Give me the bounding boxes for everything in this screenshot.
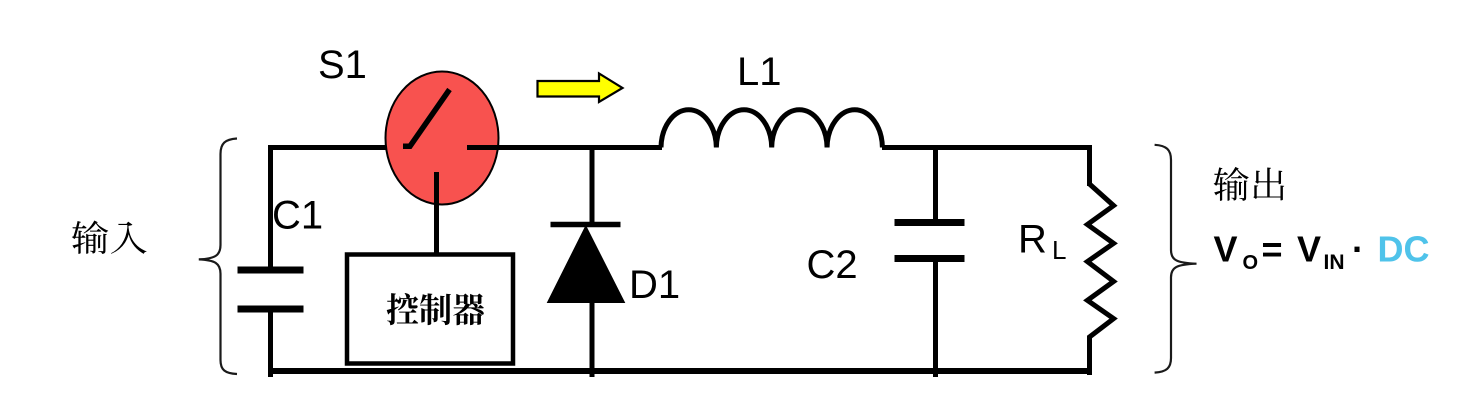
svg-text:·: ·: [1352, 229, 1364, 270]
wire: C2 bottom lead: [933, 262, 938, 377]
wire: top rail left (C1 top corner to switch left contact): [271, 148, 409, 269]
svg-text:S1: S1: [318, 43, 367, 87]
output formula VO = VIN * DC: [1214, 229, 1430, 275]
wire: switch right contact to inductor: [467, 145, 662, 150]
current-flow arrow (yellow): [538, 74, 623, 103]
svg-text:C2: C2: [807, 243, 858, 287]
input brace {: [199, 139, 237, 375]
svg-text:C1: C1: [272, 194, 323, 238]
svg-text:DC: DC: [1378, 229, 1430, 270]
inductor L1: [661, 110, 882, 148]
capacitor C2: [895, 223, 965, 259]
wire: C1 bottom lead: [268, 312, 273, 377]
output label 输出: [1214, 167, 1285, 201]
svg-text:D1: D1: [629, 263, 680, 307]
svg-text:O: O: [1243, 252, 1259, 274]
svg-text:IN: IN: [1324, 251, 1345, 274]
diode D1 cathode bar: [551, 222, 621, 228]
controller label 控制器: [387, 293, 484, 325]
resistor RL zigzag: [1087, 184, 1113, 375]
svg-text:L: L: [1052, 235, 1066, 265]
wire: switch control stem to controller: [434, 172, 439, 255]
wire: bottom rail: [268, 368, 1090, 374]
controller box: [347, 255, 513, 364]
switch S1 lever: [403, 90, 450, 147]
wire: top rail right (inductor to load corner): [882, 148, 1090, 187]
capacitor C1: [238, 270, 304, 309]
wire: diode top lead / junction at switch node: [590, 148, 595, 223]
svg-text:L1: L1: [737, 50, 782, 94]
diode D1 triangle: [548, 226, 625, 303]
input label 输入: [72, 221, 147, 254]
wire: C2 top lead: [933, 148, 938, 220]
svg-text:R: R: [1018, 218, 1047, 262]
svg-text:V: V: [1297, 229, 1321, 270]
wire: diode bottom lead: [590, 300, 595, 377]
switch S1 (red ellipse): [386, 72, 499, 205]
output brace }: [1155, 145, 1197, 373]
svg-text:V: V: [1214, 229, 1238, 270]
svg-text:=: =: [1262, 229, 1283, 270]
